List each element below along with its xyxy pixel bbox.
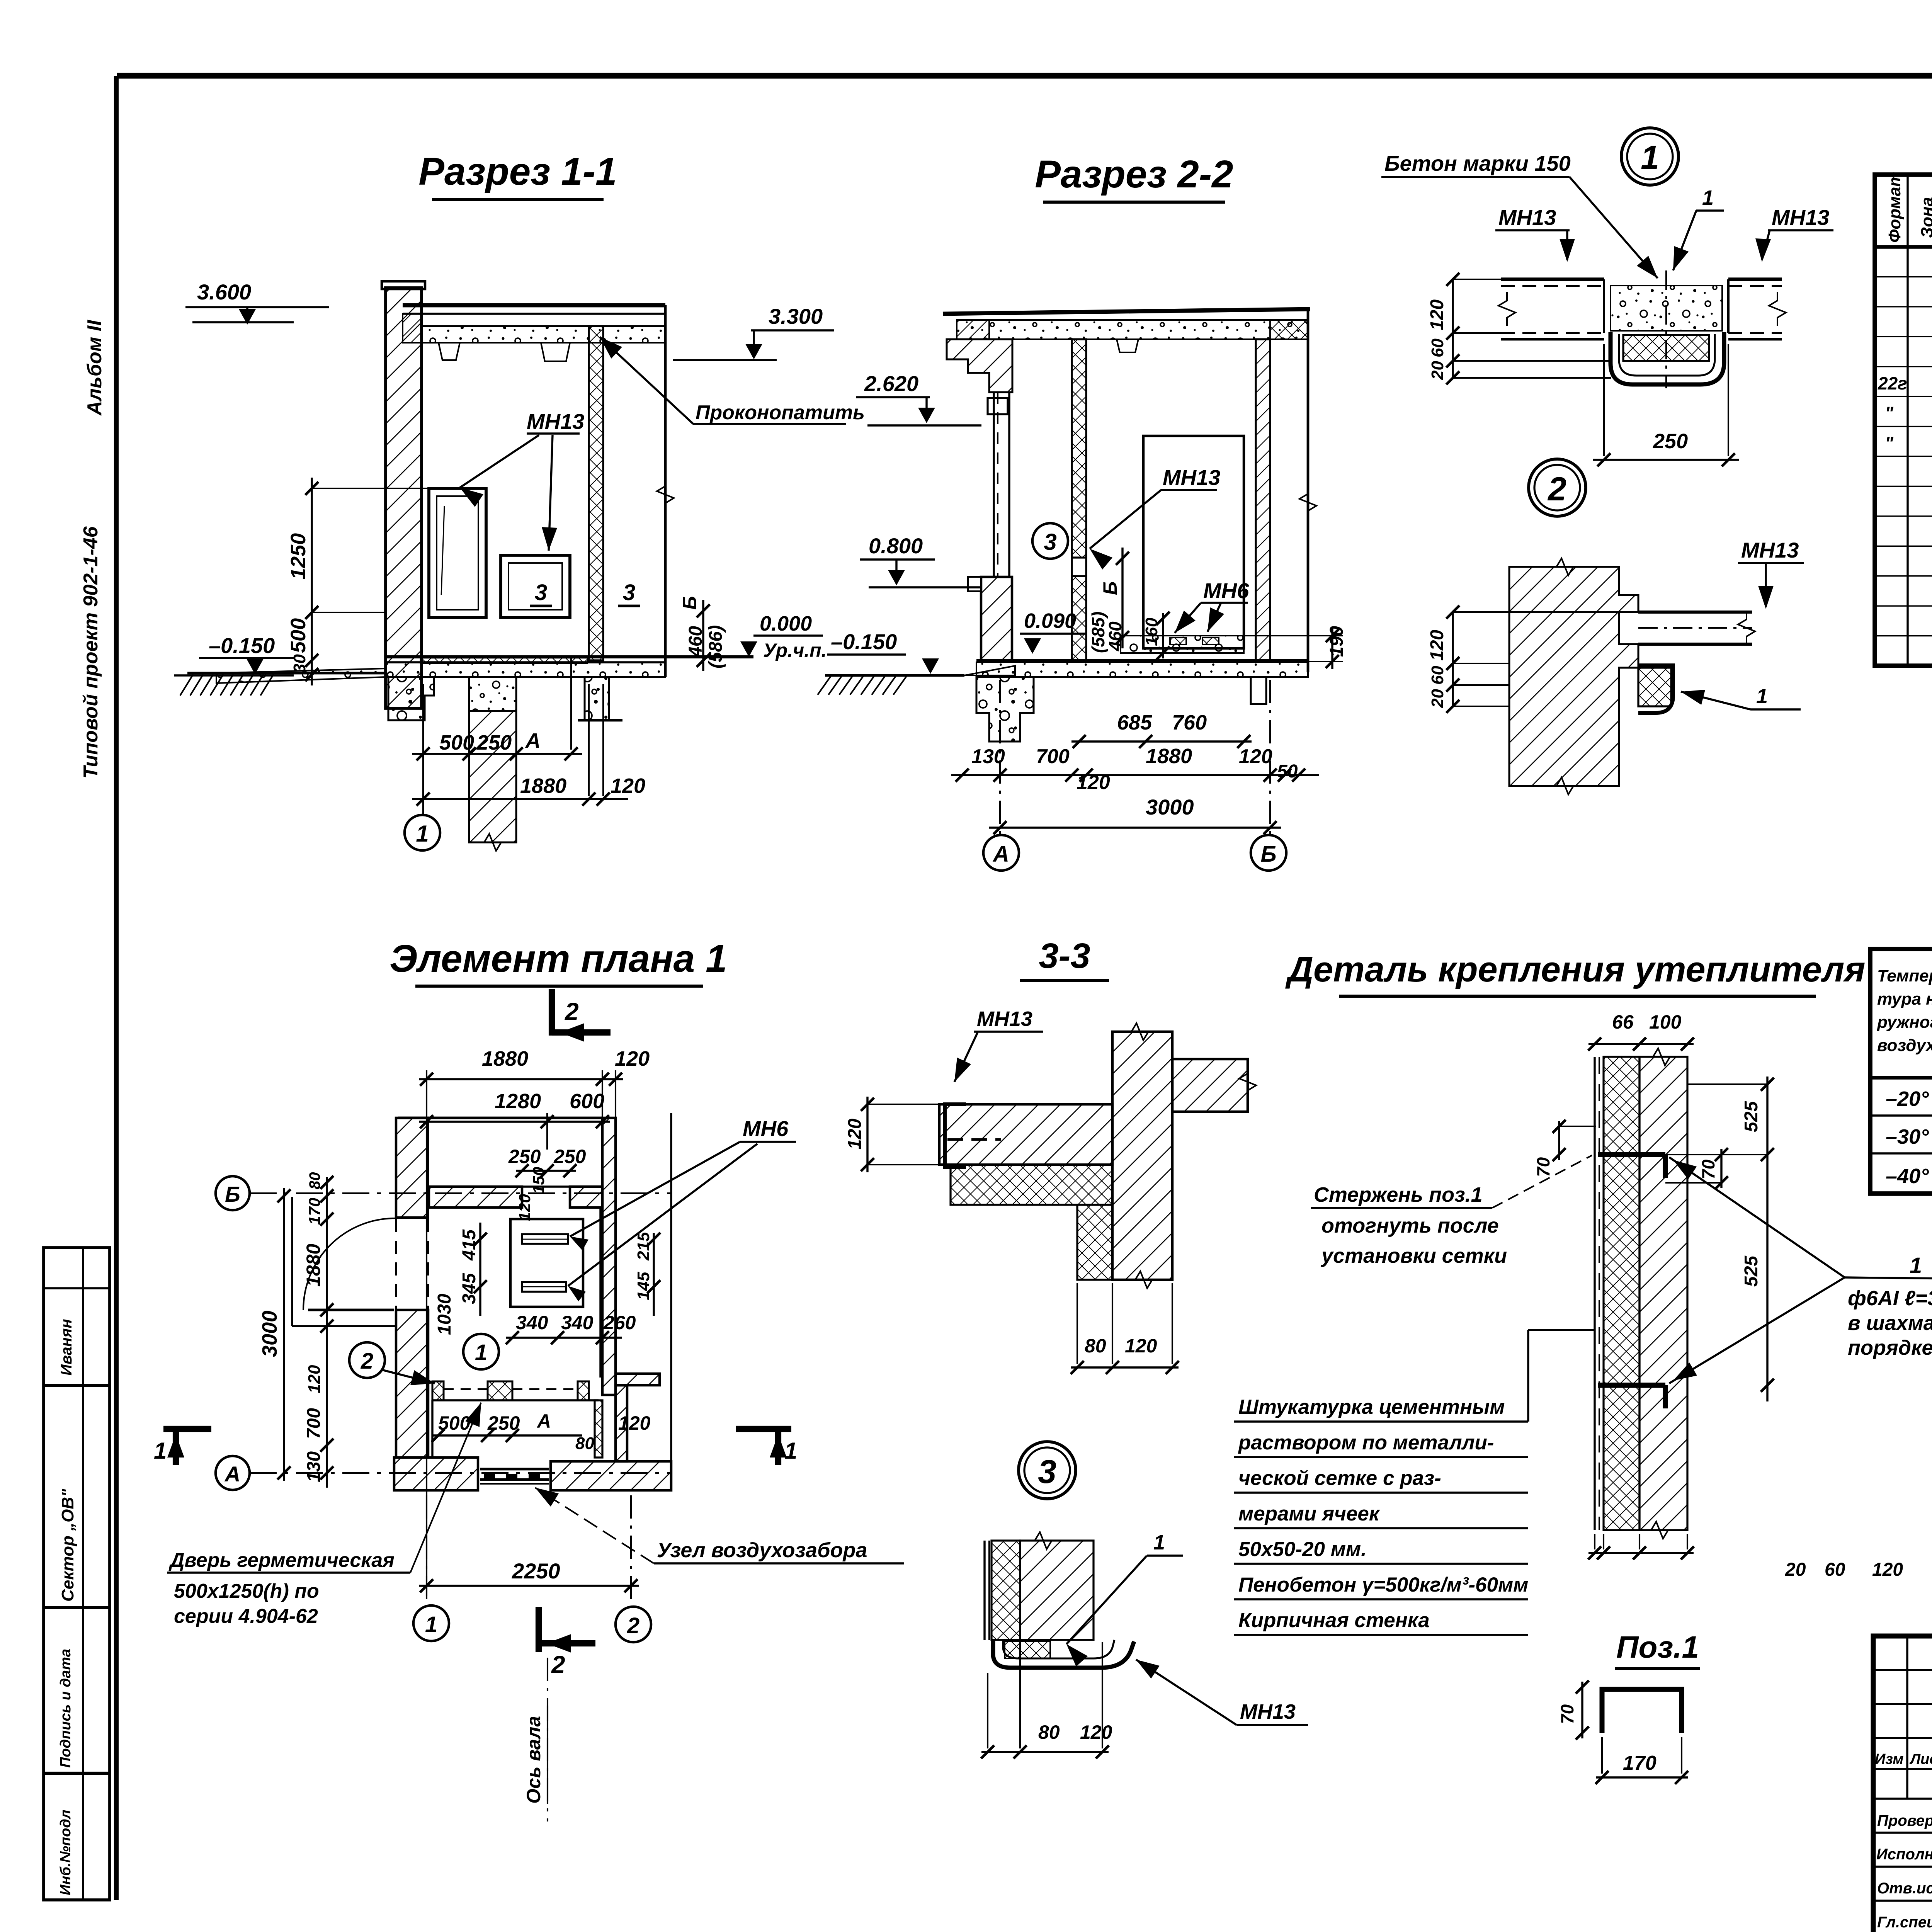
section 1-1: axis circle 1 (405, 815, 440, 850)
svg-text:мерами ячеек: мерами ячеек (1238, 1502, 1381, 1525)
svg-text:Зона: Зона (1918, 197, 1932, 238)
svg-text:170: 170 (1623, 1752, 1656, 1774)
svg-text:МН13: МН13 (1163, 465, 1220, 490)
plan: left wall lower block (396, 1310, 428, 1458)
plan: bottom partition elements (432, 1381, 444, 1400)
svg-text:3.600: 3.600 (197, 280, 251, 304)
svg-text:1030: 1030 (434, 1294, 455, 1335)
left margin table frame (44, 1248, 110, 1900)
section 2-2: dim 190 (1331, 628, 1333, 669)
section 2-2: equipment outline (1143, 436, 1244, 648)
svg-text:340: 340 (516, 1312, 548, 1333)
detail 1: metal channel U (1611, 332, 1724, 384)
svg-text:250: 250 (1653, 430, 1688, 453)
svg-text:–20°: –20° (1886, 1087, 1929, 1111)
svg-text:100: 100 (1649, 1011, 1682, 1033)
detail uteplitel: brick layer (1639, 1057, 1687, 1530)
svg-text:120: 120 (1077, 771, 1110, 794)
svg-text:Дверь герметическая: Дверь герметическая (168, 1549, 395, 1571)
svg-text:А: А (536, 1410, 551, 1432)
svg-text:–40°: –40° (1886, 1165, 1929, 1188)
svg-text:Деталь крепления утеплителя: Деталь крепления утеплителя (1285, 950, 1866, 989)
section 2-2: axis circle A (999, 680, 1001, 835)
3-3: right wall extension (1172, 1059, 1248, 1112)
svg-text:700: 700 (1036, 745, 1070, 768)
svg-text:МН13: МН13 (1772, 205, 1829, 230)
plan: MH6 embed bar 2 (522, 1282, 566, 1292)
section 1-1: MH13 leader to small frame (549, 435, 553, 551)
title block frame (1873, 1636, 1932, 1932)
svg-text:Пенобетон γ=500кг/м³-60мм: Пенобетон γ=500кг/м³-60мм (1238, 1573, 1528, 1596)
svg-text:Типовой проект 902-1-46: Типовой проект 902-1-46 (80, 526, 102, 779)
spec table header bottom (1875, 245, 1932, 249)
svg-text:30: 30 (290, 654, 309, 673)
svg-text:70: 70 (1533, 1157, 1553, 1177)
svg-text:3: 3 (535, 580, 547, 605)
section 1-1: left foundation pad (388, 677, 434, 720)
section 2-2: left foundation (976, 677, 1034, 742)
svg-text:Темпера-: Темпера- (1877, 966, 1932, 985)
detail 1: centerline (1665, 270, 1667, 388)
svg-text:Отв.исп.: Отв.исп. (1877, 1880, 1932, 1897)
svg-text:760: 760 (1172, 711, 1207, 734)
svg-text:раствором по металли-: раствором по металли- (1238, 1431, 1494, 1454)
svg-text:0.800: 0.800 (869, 534, 923, 558)
svg-text:МН13: МН13 (1498, 205, 1556, 230)
detail uteplitel: anchor rod bottom (1598, 1383, 1665, 1388)
svg-text:воздуха: воздуха (1877, 1036, 1932, 1055)
section 2-2: right wall (1256, 339, 1270, 660)
node 3: wall strip (983, 1541, 985, 1640)
svg-text:525: 525 (1741, 1255, 1762, 1287)
svg-text:": " (1885, 403, 1894, 423)
3-3: horizontal wall band (939, 1104, 1112, 1165)
svg-text:Проконопатить: Проконопатить (696, 401, 865, 424)
svg-text:60: 60 (1428, 666, 1447, 685)
svg-text:Ось вала: Ось вала (523, 1716, 544, 1804)
plan: entrance pit outline (291, 1197, 293, 1326)
svg-text:0.090: 0.090 (1024, 609, 1076, 633)
svg-text:МН13: МН13 (977, 1007, 1032, 1031)
title block left grid (1873, 1669, 1932, 1671)
detail 1: dims 120 60 20 (1452, 279, 1454, 378)
svg-text:120: 120 (611, 774, 645, 798)
svg-text:260: 260 (603, 1312, 636, 1333)
svg-text:1880: 1880 (520, 774, 566, 798)
svg-text:1: 1 (1702, 186, 1714, 209)
plan: bottom wall left part (394, 1458, 478, 1490)
svg-text:3000: 3000 (1146, 795, 1194, 819)
section 1-1: roof rib 1 (439, 343, 460, 360)
svg-text:250: 250 (508, 1146, 541, 1167)
plan: axis A circle (216, 1456, 250, 1490)
svg-text:1880: 1880 (482, 1047, 528, 1070)
svg-text:120: 120 (1080, 1721, 1112, 1743)
svg-text:Кирпичная стенка: Кирпичная стенка (1238, 1609, 1430, 1632)
plan: axis circle 1 (bottom) (426, 1495, 427, 1605)
section 1-1: louver frame small (501, 555, 570, 617)
section 1-1: roof slab (403, 303, 665, 308)
svg-text:460: 460 (1105, 621, 1125, 651)
detail 1: insulation block (1623, 335, 1709, 361)
plan: top wall band (429, 1187, 522, 1207)
plan: MH6 embed bar 1 (522, 1234, 568, 1244)
detail circle 2 (1529, 459, 1586, 516)
svg-text:Исполнит.: Исполнит. (1876, 1846, 1932, 1863)
plan: room boundary right (599, 1207, 601, 1378)
svg-text:80: 80 (575, 1434, 594, 1453)
svg-text:1: 1 (425, 1612, 437, 1637)
svg-text:120: 120 (305, 1365, 324, 1393)
svg-text:190: 190 (1327, 626, 1347, 657)
svg-text:2: 2 (565, 998, 579, 1026)
3-3: insulation horizontal (951, 1165, 1112, 1205)
svg-text:1: 1 (784, 1438, 797, 1464)
svg-text:600: 600 (570, 1090, 604, 1113)
svg-text:3: 3 (1044, 529, 1056, 555)
3-3: MH13 channel left (945, 1104, 966, 1167)
svg-text:Б: Б (1099, 582, 1121, 595)
svg-text:Поз.1: Поз.1 (1616, 1630, 1699, 1664)
svg-text:Элемент плана 1: Элемент плана 1 (389, 937, 727, 980)
section 2-2: right edge line (1307, 309, 1310, 672)
section 2-2: right small pier (1251, 677, 1266, 704)
svg-text:МН13: МН13 (1240, 1700, 1296, 1723)
detail uteplitel: plaster layer (1594, 1057, 1595, 1530)
svg-text:170: 170 (305, 1198, 323, 1225)
size table frame (1870, 949, 1932, 1194)
detail circle 3 (1019, 1442, 1076, 1499)
svg-text:20: 20 (1428, 361, 1447, 380)
svg-text:МН13: МН13 (1741, 538, 1799, 562)
svg-text:120: 120 (618, 1412, 651, 1434)
plan: right wall lower band (616, 1385, 627, 1461)
svg-text:Лист: Лист (1909, 1751, 1932, 1767)
plan: air intake louver (477, 1458, 479, 1490)
svg-text:215: 215 (634, 1232, 653, 1261)
svg-text:145: 145 (634, 1272, 653, 1300)
section 1-1: right foundation pad (585, 677, 609, 720)
svg-text:70: 70 (1698, 1159, 1718, 1179)
svg-text:500х1250(h) по: 500х1250(h) по (174, 1580, 319, 1602)
svg-text:80: 80 (1085, 1335, 1106, 1357)
detail uteplitel: dim 525 x2 (1766, 1077, 1768, 1401)
pos 1: dim 70 (1581, 1682, 1583, 1738)
svg-text:1: 1 (1756, 685, 1768, 708)
svg-text:": " (1885, 433, 1894, 453)
plan: section mark 1 (right) (736, 1426, 791, 1432)
svg-text:20: 20 (1428, 689, 1447, 708)
section 1-1: partition wall (589, 326, 603, 660)
section 1-1: floor slab (386, 655, 753, 658)
detail uteplitel: dim 70 right (1720, 1149, 1722, 1188)
svg-text:250: 250 (476, 731, 512, 754)
plan: pos circle 2 (349, 1342, 385, 1378)
svg-text:1: 1 (475, 1340, 487, 1365)
svg-text:2: 2 (551, 1651, 565, 1679)
detail 2: channel with insulation (1638, 668, 1671, 706)
section 2-2: left wall lower block (981, 577, 1012, 660)
svg-text:А: А (992, 842, 1009, 867)
svg-text:3: 3 (1038, 1453, 1056, 1490)
plan: right boundary line (670, 1113, 672, 1490)
plan: door opening dashed faces (395, 1219, 397, 1310)
svg-text:МН6: МН6 (1203, 578, 1249, 603)
svg-text:120: 120 (615, 1047, 650, 1070)
section 1-1: dim B 460 (586) (702, 600, 704, 671)
spec table column lines (1906, 175, 1908, 666)
plan: left dim string (3000 etc) (283, 1188, 285, 1481)
svg-text:1: 1 (154, 1438, 167, 1464)
svg-text:120: 120 (1427, 630, 1447, 661)
svg-text:1: 1 (1910, 1253, 1922, 1278)
svg-text:2250: 2250 (512, 1559, 560, 1583)
detail uteplitel: dim 70 left (1558, 1121, 1560, 1160)
svg-text:в шахматном: в шахматном (1848, 1311, 1932, 1335)
svg-text:Узел воздухозабора: Узел воздухозабора (657, 1539, 867, 1562)
svg-text:3000: 3000 (258, 1311, 281, 1357)
sheet frame top border (117, 73, 1932, 79)
svg-text:340: 340 (561, 1312, 594, 1333)
svg-text:ружного: ружного (1877, 1013, 1932, 1032)
section 2-2: left cornice (947, 339, 1012, 392)
section 2-2: axis circle B (1269, 680, 1271, 835)
svg-text:700: 700 (304, 1408, 324, 1439)
svg-text:22г: 22г (1878, 373, 1907, 393)
svg-text:отогнуть после: отогнуть после (1321, 1214, 1499, 1237)
svg-text:порядке: порядке (1848, 1336, 1932, 1359)
svg-text:2.620: 2.620 (864, 371, 918, 396)
svg-text:А: А (224, 1462, 240, 1486)
svg-text:–0.150: –0.150 (209, 633, 275, 658)
3-3: vertical wall band (1112, 1032, 1172, 1280)
svg-text:685: 685 (1117, 711, 1152, 734)
section 2-2: soil hatch (818, 676, 831, 695)
svg-text:МН13: МН13 (527, 409, 584, 434)
plan: bottom wall right part (551, 1461, 671, 1490)
svg-text:1880: 1880 (1146, 745, 1192, 768)
plan: door leaf open (308, 1309, 394, 1311)
svg-text:Гл.спец.: Гл.спец. (1877, 1914, 1932, 1931)
svg-text:Формат: Формат (1885, 172, 1904, 243)
svg-text:120: 120 (845, 1119, 865, 1150)
section 1-1: wall top cap (382, 281, 425, 289)
svg-text:60: 60 (1825, 1560, 1845, 1580)
svg-text:Подпись и дата: Подпись и дата (58, 1649, 74, 1768)
svg-text:Сектор „ОВ": Сектор „ОВ" (58, 1488, 77, 1602)
svg-text:1280: 1280 (495, 1090, 541, 1113)
section 1-1: MH13 leader to large frame (460, 435, 539, 488)
plan: top room boundary (398, 1117, 602, 1119)
plan: lower room right hatch (595, 1400, 602, 1458)
plan: pos circle 1 (463, 1334, 499, 1369)
pos 1: channel shape (1602, 1689, 1682, 1733)
svg-text:50х50-20 мм.: 50х50-20 мм. (1238, 1538, 1367, 1561)
plan: section mark 2 (bottom) (536, 1607, 542, 1652)
plan: top-left wall block (396, 1118, 428, 1218)
svg-text:1880: 1880 (303, 1244, 324, 1287)
detail 1: left slab (1501, 277, 1604, 281)
svg-text:2: 2 (627, 1613, 639, 1638)
svg-text:120: 120 (1427, 299, 1447, 330)
svg-text:Бетон марки 150: Бетон марки 150 (1384, 151, 1571, 175)
svg-text:Б: Б (1260, 842, 1276, 867)
svg-text:80: 80 (306, 1172, 323, 1190)
section 2-2: partition wall (1072, 339, 1086, 660)
section 1-1: vertical dim line left (311, 478, 313, 685)
svg-text:66: 66 (1612, 1011, 1634, 1033)
svg-text:20: 20 (1785, 1560, 1806, 1580)
svg-text:Инб.№подл: Инб.№подл (58, 1810, 74, 1895)
detail 2: slab entering wall (1638, 611, 1752, 614)
detail circle 1 (1621, 128, 1679, 185)
svg-text:120: 120 (1872, 1560, 1903, 1580)
section 1-1: left brick wall (386, 288, 422, 708)
svg-text:3-3: 3-3 (1039, 936, 1090, 976)
section 2-2: floor slab (976, 659, 1308, 662)
svg-text:(586): (586) (706, 625, 726, 668)
section 2-2: ground line left (825, 674, 964, 677)
section 1-1: soil hatch (180, 674, 193, 696)
sheet frame left border (114, 76, 119, 1900)
svg-text:3.300: 3.300 (769, 304, 823, 328)
svg-text:1250: 1250 (287, 533, 310, 580)
svg-text:Проверил: Проверил (1877, 1812, 1932, 1829)
svg-text:1: 1 (1641, 139, 1659, 176)
svg-text:Б: Б (679, 596, 701, 610)
detail 1: trough concrete fill (1604, 279, 1728, 333)
svg-text:Б: Б (225, 1182, 240, 1206)
svg-text:345: 345 (459, 1273, 480, 1304)
svg-text:ф6АI ℓ=300 шаг525х500: ф6АI ℓ=300 шаг525х500 (1848, 1287, 1932, 1310)
3-3: dim 120 (866, 1097, 868, 1172)
svg-text:60: 60 (1428, 338, 1447, 357)
svg-text:ческой сетке с раз-: ческой сетке с раз- (1238, 1467, 1441, 1490)
section 2-2: concrete pad MH6 (1121, 636, 1244, 653)
plan: section mark 2 (top) (549, 989, 555, 1036)
section 1-1: underfloor insulation strip (420, 658, 587, 663)
svg-text:Иванян: Иванян (58, 1319, 75, 1376)
svg-text:80: 80 (1038, 1721, 1060, 1743)
section 1-1: ground line and apron (187, 672, 386, 675)
section 2-2: pos circle 3 (1032, 523, 1068, 559)
3-3: insulation vertical (1077, 1205, 1112, 1280)
svg-text:120: 120 (515, 1194, 534, 1221)
plan: door swing arc (303, 1218, 395, 1310)
detail uteplitel: leader to pos 1 (1669, 1157, 1845, 1277)
section 2-2: louver frame in left wall (993, 392, 995, 577)
svg-text:Разрез 2-2: Разрез 2-2 (1035, 153, 1233, 196)
svg-text:–0.150: –0.150 (831, 629, 897, 654)
section 2-2: roof slab (943, 309, 1310, 314)
svg-text:0.000: 0.000 (760, 612, 812, 635)
svg-text:установки сетки: установки сетки (1320, 1244, 1507, 1267)
svg-text:130: 130 (304, 1451, 324, 1482)
svg-text:тура на-: тура на- (1877, 990, 1932, 1009)
section 1-1: right edge line (664, 305, 667, 677)
svg-text:Штукатурка цементным: Штукатурка цементным (1238, 1396, 1505, 1418)
plan: Os vala axis label (547, 1658, 548, 1821)
plan: axis B circle (216, 1176, 250, 1210)
section 1-1: roof rib 2 (541, 343, 570, 361)
svg-text:МН6: МН6 (743, 1116, 789, 1141)
detail 2: wall block (1509, 567, 1638, 786)
plan: right wall band (602, 1118, 616, 1395)
svg-text:–30°: –30° (1886, 1125, 1929, 1148)
section 1-1: center foundation pier (469, 677, 516, 711)
svg-text:120: 120 (1239, 745, 1272, 768)
svg-text:70: 70 (1557, 1704, 1577, 1724)
plan: axis circle 2 (bottom) (630, 1495, 632, 1605)
detail 2: dims 120 60 20 (1452, 612, 1454, 706)
svg-text:3: 3 (623, 580, 635, 605)
svg-text:Стержень поз.1: Стержень поз.1 (1314, 1183, 1483, 1206)
detail uteplitel: anchor rod top (1598, 1152, 1665, 1157)
svg-text:500: 500 (287, 618, 310, 653)
svg-text:1: 1 (1153, 1531, 1165, 1554)
plan: heater equipment rect (510, 1219, 583, 1307)
node 3: channel U bottom (993, 1640, 1134, 1668)
svg-text:415: 415 (459, 1229, 480, 1261)
svg-text:120: 120 (1125, 1335, 1157, 1357)
svg-text:1: 1 (416, 821, 429, 847)
svg-text:А: А (525, 729, 541, 752)
detail uteplitel: insulation layer (1604, 1057, 1639, 1530)
svg-text:Разрез 1-1: Разрез 1-1 (418, 150, 617, 193)
section 2-2: roof rib (1117, 339, 1138, 352)
section 1-1: louver frame large (429, 488, 486, 617)
svg-text:Изм: Изм (1875, 1751, 1903, 1767)
svg-text:2: 2 (361, 1349, 373, 1374)
svg-text:460: 460 (685, 626, 706, 657)
plan: right wall stub (616, 1374, 660, 1385)
svg-text:2: 2 (1547, 471, 1566, 508)
svg-text:Ур.ч.п.: Ур.ч.п. (763, 639, 827, 661)
detail 1: right slab (1728, 277, 1782, 281)
spec table row lines (1875, 276, 1932, 277)
svg-text:250: 250 (553, 1146, 586, 1167)
svg-text:525: 525 (1741, 1101, 1762, 1132)
specification table frame (1875, 175, 1932, 666)
plan: section mark 1 (left) (163, 1426, 211, 1432)
svg-text:Альбом II: Альбом II (83, 320, 106, 416)
svg-text:150: 150 (529, 1167, 548, 1194)
svg-text:серии 4.904-62: серии 4.904-62 (174, 1605, 318, 1628)
